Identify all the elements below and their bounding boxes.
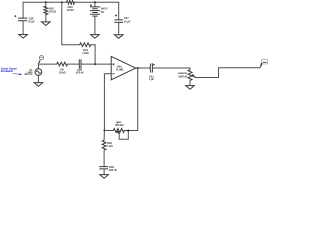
wire feedback from output (128, 68, 138, 131)
wire C41 to volume pot (153, 68, 190, 70)
svg-text:47 µF: 47 µF (28, 20, 35, 24)
ground below C28 (100, 169, 109, 178)
wire R46 to C28 (103, 150, 105, 166)
svg-text:400 Hz: 400 Hz (24, 72, 33, 76)
ground below BAT1 (91, 35, 100, 39)
ground below C36 (19, 21, 28, 38)
annotation Guitar Signal Emulation (1, 68, 22, 76)
svg-text:1 MΩ: 1 MΩ (82, 51, 89, 55)
svg-text:TL082: TL082 (116, 67, 124, 71)
wire R43 to signal node (91, 45, 95, 64)
svg-text:500 kΩ: 500 kΩ (178, 74, 187, 78)
node probe bubble at V1 (39, 56, 44, 64)
node inverting junction (103, 130, 105, 132)
node gain pot right junction (127, 130, 129, 132)
capacitor C27 (114, 2, 130, 23)
wire junction to R46 (103, 131, 105, 141)
wire inverting input stub (104, 74, 111, 131)
svg-text:1 kΩ: 1 kΩ (107, 144, 114, 148)
svg-text:500 kΩ: 500 kΩ (115, 123, 124, 127)
potentiometer volume 500 k (178, 70, 196, 81)
node rail junction at BAT1 (94, 1, 96, 3)
capacitor C41 (149, 63, 155, 81)
resistor R46 (102, 140, 113, 150)
op-amp OA1 TL082 (111, 56, 136, 79)
wire to gain pot (104, 130, 128, 132)
potentiometer gain 500 k (113, 120, 128, 139)
wire volume wiper to output port (195, 65, 261, 77)
svg-text:47 µF: 47 µF (124, 20, 131, 24)
resistor R32 (44, 2, 57, 22)
wire top supply rail (23, 1, 119, 3)
capacitor C25 (76, 59, 85, 74)
node bias junction (61, 1, 63, 3)
svg-text:10 kΩ: 10 kΩ (59, 70, 67, 74)
voltage source V1 sine 400 Hz (24, 64, 42, 83)
node output junction (137, 67, 139, 69)
ground below V1 (34, 83, 43, 87)
ground below C27 (114, 22, 123, 38)
wire R5 to C25 (68, 63, 79, 65)
battery BAT1 9V (90, 2, 108, 34)
wire op-amp output (136, 67, 151, 69)
capacitor C28 (99, 165, 117, 172)
svg-text:10 kΩ: 10 kΩ (66, 8, 74, 12)
output port tag (260, 59, 268, 66)
svg-text:10 kΩ: 10 kΩ (49, 10, 57, 14)
svg-text:Emulation: Emulation (1, 70, 14, 73)
resistor R5 (57, 62, 68, 74)
ground below volume pot (186, 80, 195, 89)
svg-text:1 µF: 1 µF (149, 77, 155, 81)
ground below R32 (42, 22, 51, 26)
capacitor C36 (15, 2, 36, 23)
svg-text:220 nF: 220 nF (109, 168, 118, 172)
wire V1 to R5 (38, 63, 56, 65)
node rail junction at R32 (45, 1, 47, 3)
svg-text:9V: 9V (101, 10, 104, 14)
wire C25 to op-amp (81, 63, 111, 65)
svg-text:470 nF: 470 nF (76, 70, 85, 74)
wire bias node down to R43 (62, 2, 80, 44)
node noninverting input junction (94, 63, 96, 65)
resistor R44 (66, 0, 74, 12)
resistor R43 (80, 43, 91, 55)
